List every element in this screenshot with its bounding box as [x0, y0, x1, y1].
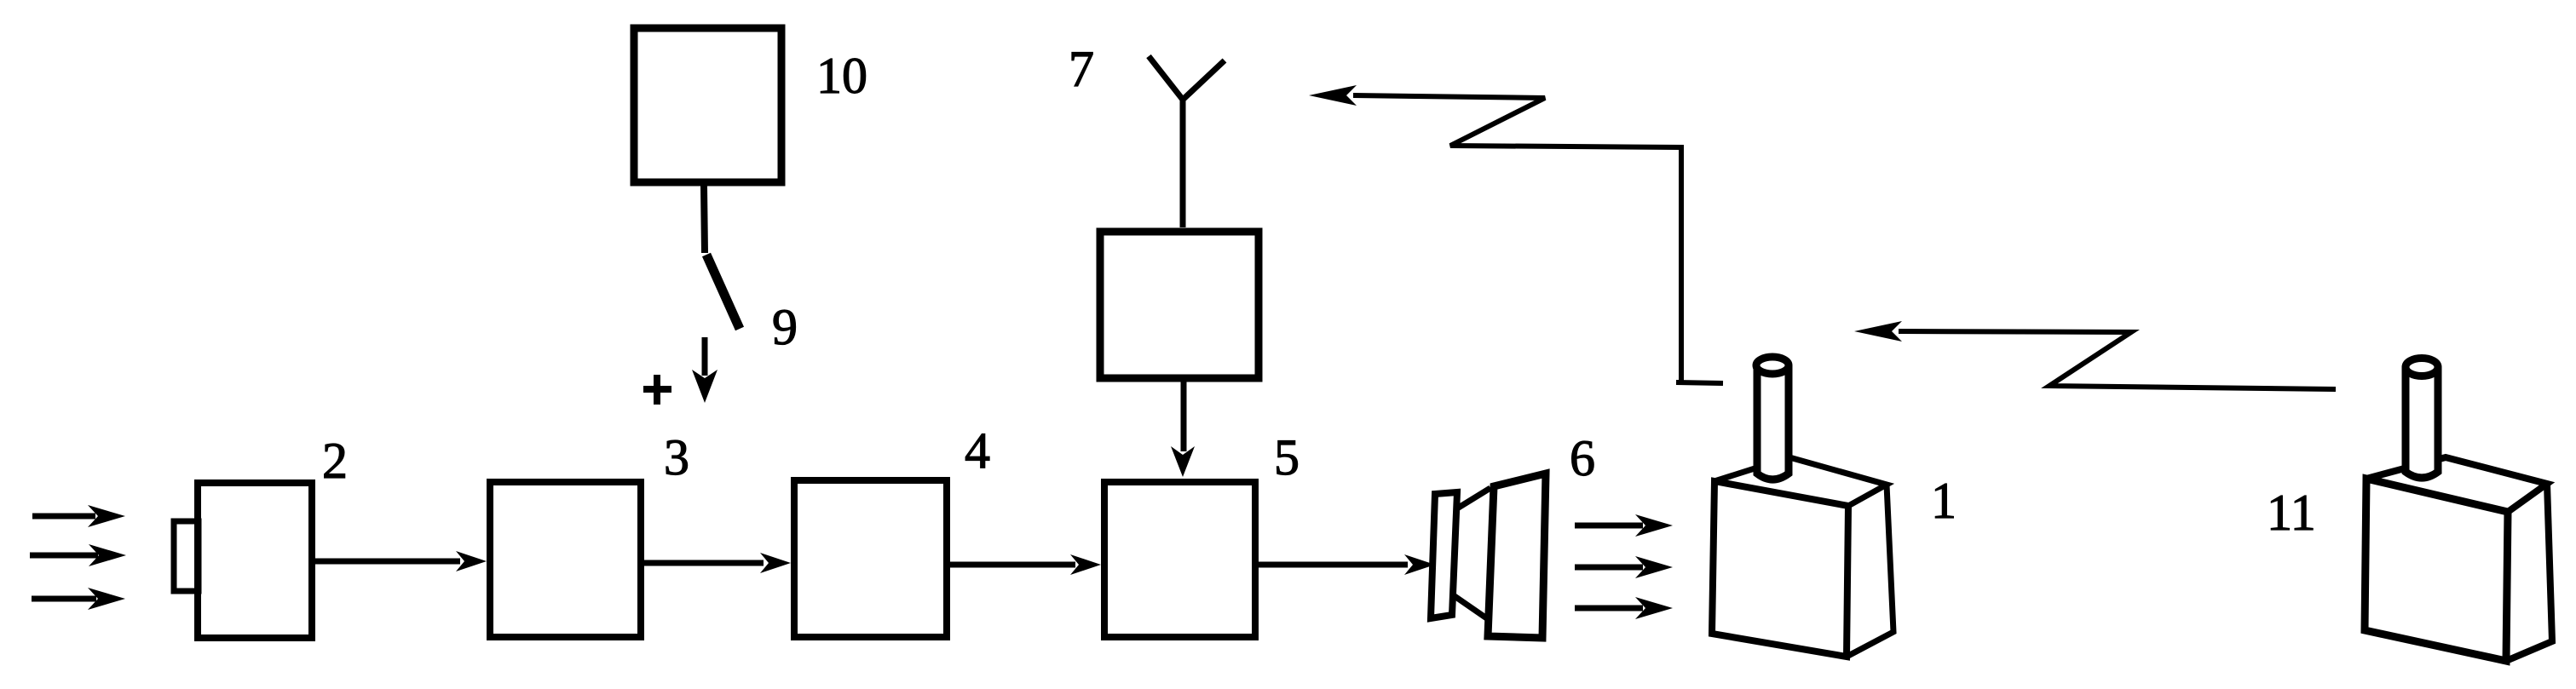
signal zigzag from device 1 to antenna 7: [1309, 85, 1723, 383]
device 1 chimney cylinder: [1756, 357, 1789, 479]
device 11 right face: [2506, 484, 2552, 661]
wire block 3 to block 4: [644, 553, 791, 573]
wire block 7 to block 5: [1171, 382, 1195, 477]
svg-text:4: 4: [965, 422, 990, 479]
output sound arrow 3: [1575, 597, 1673, 619]
output sound arrow 2: [1575, 556, 1673, 578]
switched supply arrow into block 3: [692, 337, 717, 403]
wire block 4 to block 5: [950, 554, 1101, 575]
output sound arrow 1: [1575, 514, 1673, 537]
signal zigzag from device 11 to device 1: [1854, 321, 2336, 389]
speaker 6 driver: [1431, 492, 1457, 618]
svg-text:3: 3: [664, 429, 689, 485]
svg-text:9: 9: [772, 299, 798, 355]
switch 9 wire and blade: [704, 186, 740, 329]
svg-text:5: 5: [1274, 429, 1300, 485]
speaker 6 horn top: [1457, 488, 1490, 508]
block 5: [1104, 482, 1255, 637]
svg-text:7: 7: [1069, 41, 1094, 97]
svg-text:10: 10: [816, 48, 867, 104]
speaker 6 horn bottom: [1455, 596, 1490, 621]
input sound arrow 1: [32, 505, 125, 527]
microphone stub on block 2: [174, 521, 199, 591]
block 2: [198, 483, 312, 638]
input sound arrow 3: [32, 588, 125, 610]
device 11 front face: [2365, 479, 2508, 661]
antenna 7: [1149, 56, 1225, 227]
device 1 top face: [1714, 457, 1887, 506]
device 1 right face: [1847, 485, 1893, 657]
svg-text:2: 2: [322, 433, 348, 489]
block 4: [794, 480, 947, 637]
block 10: [634, 28, 781, 182]
svg-text:11: 11: [2267, 485, 2316, 541]
block 3: [490, 482, 641, 637]
input sound arrow 2: [30, 544, 126, 566]
device 1 front face: [1712, 481, 1848, 657]
speaker 6 baffle: [1488, 474, 1546, 638]
svg-text:6: 6: [1570, 430, 1595, 486]
wire block 5 to speaker 6: [1259, 554, 1435, 575]
block 7: [1100, 232, 1259, 378]
device 11 chimney cylinder: [2406, 359, 2438, 479]
svg-text:1: 1: [1931, 473, 1956, 529]
plus sign: [643, 375, 671, 405]
wire block 2 to block 3: [312, 551, 487, 571]
device 11 top face: [2366, 457, 2547, 512]
